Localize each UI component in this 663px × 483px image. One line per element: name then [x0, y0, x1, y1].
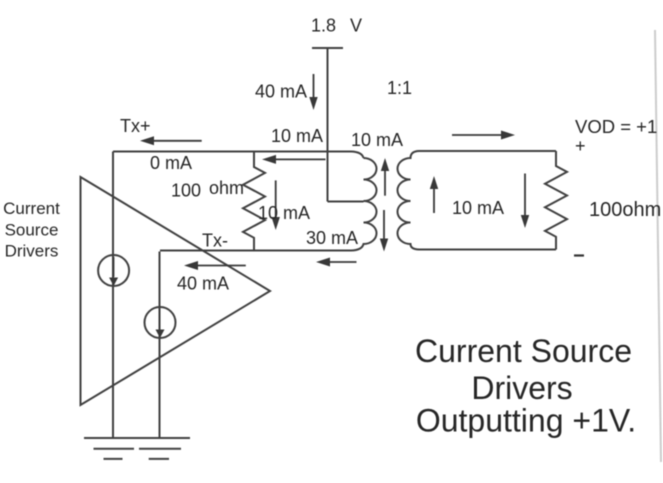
svg-text:VOD = +1: VOD = +1	[575, 116, 657, 137]
svg-text:Tx+: Tx+	[120, 116, 151, 136]
svg-text:V: V	[350, 16, 362, 36]
svg-text:10 mA: 10 mA	[452, 198, 504, 218]
svg-text:30 mA: 30 mA	[306, 228, 358, 248]
svg-text:1:1: 1:1	[387, 78, 412, 98]
svg-text:Drivers: Drivers	[471, 370, 572, 406]
svg-text:Drivers: Drivers	[5, 242, 59, 261]
svg-text:10 mA: 10 mA	[351, 130, 403, 150]
svg-text:Current Source: Current Source	[415, 333, 632, 369]
svg-text:10 mA: 10 mA	[258, 203, 310, 223]
svg-text:100: 100	[171, 181, 201, 201]
svg-text:+: +	[575, 136, 586, 156]
svg-text:Outputting +1V.: Outputting +1V.	[416, 403, 636, 439]
svg-text:ohm: ohm	[209, 178, 244, 198]
svg-text:100ohm: 100ohm	[589, 199, 661, 221]
svg-text:10 mA: 10 mA	[271, 126, 323, 146]
svg-text:40 mA: 40 mA	[255, 82, 307, 102]
svg-text:Tx-: Tx-	[202, 231, 228, 251]
svg-text:1.8: 1.8	[311, 16, 336, 36]
svg-text:Source: Source	[5, 221, 59, 240]
svg-text:0 mA: 0 mA	[150, 153, 192, 173]
svg-text:40 mA: 40 mA	[177, 274, 229, 294]
svg-text:Current: Current	[3, 199, 60, 218]
